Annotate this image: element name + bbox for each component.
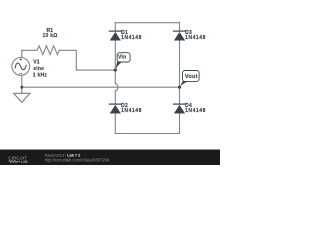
svg-text:Vout: Vout [185, 74, 198, 80]
svg-text:1 kHz: 1 kHz [33, 73, 48, 79]
svg-text:http://circuitlab.com/c/9au2k3: http://circuitlab.com/c/9au2k387269 [45, 157, 110, 162]
svg-text:V1: V1 [33, 60, 40, 66]
svg-text:Vin: Vin [118, 54, 126, 60]
svg-text:1N4148: 1N4148 [185, 35, 206, 41]
svg-text:sine: sine [33, 66, 44, 72]
svg-text:10 kΩ: 10 kΩ [43, 33, 58, 39]
svg-text:1N4148: 1N4148 [185, 108, 206, 114]
svg-text:1N4148: 1N4148 [121, 35, 142, 41]
svg-text:LAB: LAB [21, 160, 28, 164]
svg-text:1N4148: 1N4148 [121, 108, 142, 114]
svg-text:Kayano213 / Lab 7 2: Kayano213 / Lab 7 2 [45, 153, 80, 157]
